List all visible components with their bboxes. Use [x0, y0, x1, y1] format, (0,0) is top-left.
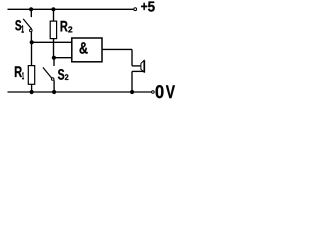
switch S1 blade [23, 19, 32, 29]
terminal +5 open circle [134, 8, 137, 11]
label +5 plus sign [141, 3, 147, 10]
earphone B1 cone trapezoid [141, 60, 144, 72]
resistor R1 body [28, 66, 34, 85]
label S1 subscript 1 [22, 25, 24, 32]
node junction top rail / R2 column [51, 7, 55, 11]
wire S2 top stub [53, 58, 55, 66]
label 0V digit 0 [156, 85, 164, 98]
wire top rail to +5 terminal [8, 8, 134, 10]
wire earphone bottom lead [132, 70, 144, 72]
wire earphone lead down to rail [131, 71, 133, 92]
wire gate output [102, 48, 132, 50]
switch S2 contact circle [51, 78, 54, 81]
label S2 subscript 2 [65, 74, 69, 80]
wire R1 bottom stub [31, 84, 33, 92]
wire R2 top stub [53, 9, 55, 21]
resistor R2 body [50, 21, 56, 38]
wire bottom rail to 0V terminal [8, 91, 152, 93]
label 0V letter V [166, 85, 175, 98]
node rail junction / R1 [30, 90, 34, 94]
node rail junction / S2 [52, 90, 56, 94]
wire earphone top lead [132, 65, 141, 67]
label S1 letter S [15, 20, 21, 30]
wire node A to gate input 1 [32, 41, 72, 43]
label R2 letter R [61, 21, 68, 32]
wire S1 top stub [30, 9, 32, 17]
node junction top rail / S1 column [29, 7, 33, 11]
wire R1 top stub from node A [31, 42, 33, 65]
wire R2 bottom down to node B [53, 39, 55, 58]
earphone B1 diaphragm bar [143, 60, 145, 72]
wire S1 bottom to node A [30, 32, 32, 43]
label S2 letter S [58, 69, 64, 80]
terminal 0V open circle [152, 91, 155, 94]
label & of AND gate U1 [80, 42, 88, 53]
node B junction dot [52, 56, 56, 60]
switch S2 blade [43, 67, 52, 78]
label R1 letter R [15, 66, 22, 77]
node rail junction / earphone lead [130, 90, 134, 94]
label R1 subscript 1 [22, 72, 24, 79]
node A junction dot [30, 40, 34, 44]
AND gate U1 box [72, 38, 102, 62]
wire node B to gate input 2 [54, 57, 72, 59]
wire output corner down [131, 49, 133, 66]
label R2 subscript 2 [68, 26, 72, 32]
switch S1 contact circle [30, 29, 33, 32]
label +5 digit 5 [148, 2, 155, 12]
wire S2 bottom to rail [53, 80, 55, 92]
